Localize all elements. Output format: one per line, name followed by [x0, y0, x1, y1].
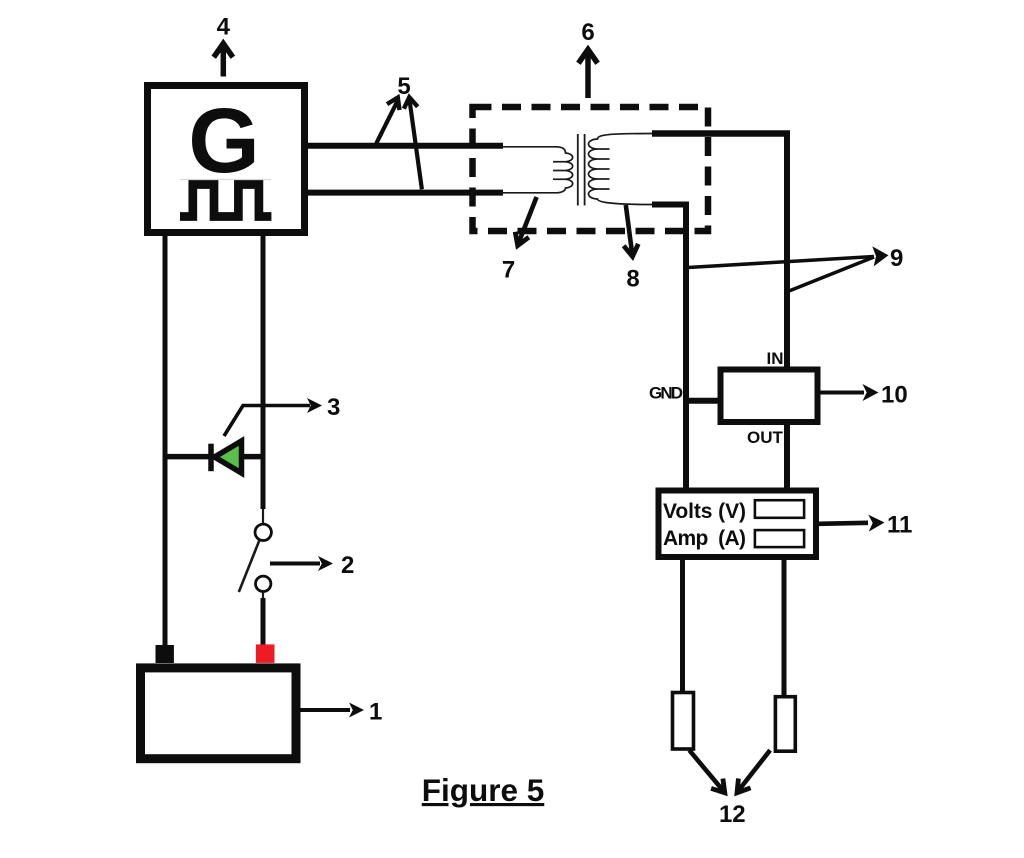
svg-text:7: 7 — [502, 257, 515, 284]
svg-text:4: 4 — [217, 14, 231, 41]
svg-text:12: 12 — [719, 801, 746, 828]
svg-text:GND: GND — [649, 384, 683, 403]
svg-text:10: 10 — [881, 382, 908, 409]
svg-text:5: 5 — [397, 73, 410, 100]
svg-text:IN: IN — [767, 349, 784, 368]
svg-text:3: 3 — [327, 394, 340, 421]
svg-text:Amp (A): Amp (A) — [663, 527, 746, 550]
svg-text:2: 2 — [341, 552, 354, 579]
svg-text:6: 6 — [581, 19, 594, 46]
svg-text:9: 9 — [890, 245, 903, 272]
svg-text:Volts (V): Volts (V) — [663, 500, 746, 523]
svg-text:OUT: OUT — [747, 428, 784, 447]
svg-text:1: 1 — [369, 699, 382, 726]
svg-text:Figure 5: Figure 5 — [422, 772, 545, 808]
svg-text:11: 11 — [887, 512, 912, 539]
svg-text:G: G — [188, 90, 260, 192]
svg-text:8: 8 — [626, 266, 639, 293]
